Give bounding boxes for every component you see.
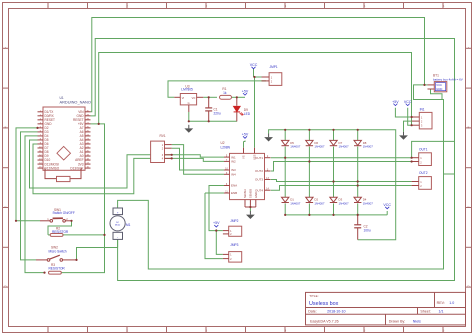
svg-text:1N4007: 1N4007 xyxy=(290,145,301,149)
svg-text:ENB: ENB xyxy=(231,191,237,195)
svg-text:IN2: IN2 xyxy=(231,160,236,164)
svg-text:VCC: VCC xyxy=(436,83,442,87)
svg-text:RESISTOR: RESISTOR xyxy=(49,267,66,271)
svg-text:1/1: 1/1 xyxy=(439,309,444,313)
svg-text:2: 2 xyxy=(420,160,422,164)
svg-text:OUT2: OUT2 xyxy=(255,169,263,173)
svg-text:GND: GND xyxy=(436,87,442,91)
svg-text:JMP1: JMP1 xyxy=(270,65,278,69)
svg-text:1N4007: 1N4007 xyxy=(290,201,301,205)
svg-text:RESISTOR: RESISTOR xyxy=(52,230,69,234)
svg-text:VCC: VCC xyxy=(383,203,391,207)
svg-text:-: - xyxy=(117,235,118,239)
svg-text:2: 2 xyxy=(230,232,232,236)
svg-text:OUT2: OUT2 xyxy=(419,171,428,175)
svg-text:LED: LED xyxy=(244,112,251,116)
svg-text:VCC: VCC xyxy=(250,63,258,67)
svg-text:1k: 1k xyxy=(223,91,227,95)
svg-text:1: 1 xyxy=(420,180,422,184)
svg-text:1.0: 1.0 xyxy=(449,301,454,305)
svg-text:2: 2 xyxy=(421,120,423,124)
svg-text:SENSA: SENSA xyxy=(243,189,247,198)
svg-text:SENSB: SENSB xyxy=(249,189,253,198)
svg-text:1: 1 xyxy=(271,75,273,79)
svg-text:6: 6 xyxy=(443,4,445,8)
svg-text:1: 1 xyxy=(47,217,49,221)
svg-text:ENA: ENA xyxy=(231,184,237,188)
svg-text:1: 1 xyxy=(420,156,422,160)
svg-text:1N4007: 1N4007 xyxy=(363,201,374,205)
svg-text:VO: VO xyxy=(192,97,196,100)
svg-text:ARDUINO_NANO: ARDUINO_NANO xyxy=(60,100,91,105)
svg-text:2: 2 xyxy=(126,4,128,8)
svg-text:A: A xyxy=(4,46,6,50)
svg-text:battery box 4xAA = 6V: battery box 4xAA = 6V xyxy=(433,77,463,81)
svg-text:+5V: +5V xyxy=(242,133,249,137)
svg-text:2: 2 xyxy=(420,184,422,188)
svg-text:OUT1: OUT1 xyxy=(419,147,428,151)
svg-text:TITLE:: TITLE: xyxy=(309,294,318,298)
svg-text:RV1: RV1 xyxy=(160,134,166,138)
svg-text:JMP3: JMP3 xyxy=(230,243,238,247)
svg-text:+5V: +5V xyxy=(213,221,220,225)
svg-text:Motor: Motor xyxy=(115,224,121,227)
svg-text:2: 2 xyxy=(66,217,68,221)
svg-text:VSS: VSS xyxy=(253,154,257,160)
svg-text:LM7805: LM7805 xyxy=(181,88,193,92)
svg-text:IN1: IN1 xyxy=(420,108,425,112)
svg-text:+5V: +5V xyxy=(392,100,399,104)
svg-text:1: 1 xyxy=(230,253,232,257)
svg-text:1: 1 xyxy=(421,115,423,119)
svg-text:+5V: +5V xyxy=(242,89,249,93)
svg-text:Micro Switch: Micro Switch xyxy=(49,249,67,253)
svg-text:1N4007: 1N4007 xyxy=(363,145,374,149)
svg-text:Date:: Date: xyxy=(308,309,317,313)
svg-text:OUT3: OUT3 xyxy=(255,178,263,182)
svg-text:OUT4: OUT4 xyxy=(255,188,263,192)
svg-text:A: A xyxy=(467,46,469,50)
svg-text:2018-10-10: 2018-10-10 xyxy=(327,309,345,313)
svg-text:3: 3 xyxy=(421,124,423,128)
svg-text:REV:: REV: xyxy=(437,301,445,305)
svg-text:VCC: VCC xyxy=(404,100,412,104)
svg-text:JMP2: JMP2 xyxy=(230,219,238,223)
svg-text:1: 1 xyxy=(47,4,49,8)
svg-text:1N4007: 1N4007 xyxy=(314,201,325,205)
svg-text:B: B xyxy=(4,126,6,130)
svg-text:Drawn By:: Drawn By: xyxy=(389,320,406,324)
svg-text:Sheet:: Sheet: xyxy=(420,309,430,313)
svg-text:EasyEDA V5.7.26: EasyEDA V5.7.26 xyxy=(310,320,339,324)
svg-text:+: + xyxy=(117,210,119,214)
svg-text:Niels: Niels xyxy=(413,320,421,324)
svg-text:D13/SCK: D13/SCK xyxy=(70,166,84,170)
svg-text:2: 2 xyxy=(271,80,273,84)
svg-text:1N4007: 1N4007 xyxy=(339,201,350,205)
svg-text:M1: M1 xyxy=(126,223,131,227)
svg-text:1N4007: 1N4007 xyxy=(314,145,325,149)
svg-text:100u: 100u xyxy=(364,229,371,233)
svg-text:VS: VS xyxy=(242,155,246,159)
svg-text:L298N: L298N xyxy=(221,145,231,149)
svg-text:G: G xyxy=(188,102,190,105)
svg-text:1N4007: 1N4007 xyxy=(339,145,350,149)
svg-text:5: 5 xyxy=(364,4,366,8)
svg-text:D12/MISO: D12/MISO xyxy=(45,166,60,170)
svg-text:Useless box: Useless box xyxy=(309,301,339,307)
svg-text:GND: GND xyxy=(254,192,258,198)
svg-text:VI: VI xyxy=(182,97,185,100)
svg-text:IN4: IN4 xyxy=(231,173,236,177)
svg-text:220u: 220u xyxy=(214,111,221,115)
svg-text:B: B xyxy=(467,126,469,130)
svg-text:4: 4 xyxy=(284,4,286,8)
svg-text:Switch ON/OFF: Switch ON/OFF xyxy=(53,211,75,215)
svg-text:2: 2 xyxy=(230,257,232,261)
svg-text:3: 3 xyxy=(205,4,207,8)
